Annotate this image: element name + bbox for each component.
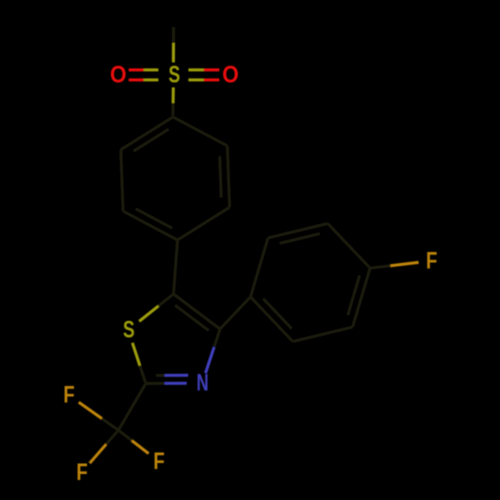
bond C2=N3 main (half b) — [165, 382, 187, 385]
svg-text:S: S — [123, 317, 135, 344]
S=O right line1 a — [188, 78, 204, 81]
C4=C5 inner a — [192, 318, 209, 331]
svg-text:N: N — [197, 370, 209, 397]
ring1 V6=V1 inner b — [151, 129, 169, 140]
bond C4-aryl2 — [220, 297, 251, 329]
bond N3-C4 (half a) — [206, 347, 215, 373]
svg-text:F: F — [153, 448, 164, 475]
ring2 B=C inner a — [280, 239, 300, 244]
C4=C5 inner b — [175, 305, 192, 318]
S=O left line-1 b — [129, 78, 144, 81]
ring2 C-D — [328, 224, 370, 269]
ring2 F=A inner b — [263, 299, 277, 314]
bond C-F4 (half a) — [118, 430, 131, 440]
bond N3-C4 (half b) — [214, 329, 220, 347]
ring1 V2-V3 — [227, 146, 229, 208]
ring2 A-B — [251, 238, 269, 297]
S=O left line1 a — [144, 68, 159, 71]
ring1 V4=V5 inner a — [154, 219, 172, 229]
ring1 V1-V2 — [173, 117, 227, 146]
ring2 B-C — [268, 224, 328, 238]
bond C-F right (half a) — [370, 266, 390, 268]
S=O right line1 b — [204, 78, 219, 81]
ring1 V2=V3 inner a — [218, 156, 222, 177]
ring2 F=A inner a — [278, 314, 292, 329]
svg-text:O: O — [110, 61, 127, 88]
C2=N3 inner a — [156, 374, 165, 377]
S=O right line-1 b — [204, 68, 219, 71]
bond C2-CF3 — [118, 384, 145, 431]
svg-text:O: O — [222, 61, 239, 88]
S=O right line-1 a — [188, 68, 204, 71]
svg-text:S: S — [168, 61, 180, 88]
ring2 D=E inner b — [348, 295, 354, 315]
bond C-F2 (half b) — [79, 402, 102, 418]
ring2 E-F — [293, 327, 353, 341]
bond C-F4 (half b) — [132, 441, 149, 454]
ring2 D-E — [353, 268, 371, 327]
bond CH3-S (half a) — [172, 27, 175, 43]
bond C-F2 (half a) — [102, 419, 119, 431]
svg-text:F: F — [426, 248, 437, 275]
ring1 V6=V1 inner a — [134, 140, 152, 151]
ring2 D=E inner a — [354, 275, 360, 295]
bond C4=C5 main — [174, 294, 221, 329]
ring1 V2=V3 inner b — [219, 177, 223, 198]
bond S1-C2 (half b) — [140, 366, 146, 384]
ring1 V3-V4 — [178, 207, 230, 240]
bond C5-S1 (half b) — [139, 306, 158, 321]
svg-text:F: F — [63, 382, 74, 409]
ring1 V5-V6 — [121, 150, 123, 212]
S=O left line1 b — [129, 68, 144, 71]
bond C5-S1 (half a) — [158, 294, 173, 306]
ring2 B=C inner b — [300, 234, 320, 239]
bond C-F3 (half a) — [106, 430, 118, 444]
bond S-C(aryl) (half a) — [172, 87, 175, 103]
ring1 V4-V5 — [123, 211, 177, 240]
svg-text:F: F — [76, 459, 87, 486]
bond C-F3 (half b) — [90, 444, 106, 463]
ring2 F-A — [251, 297, 293, 342]
bond CH3-S (half b) — [172, 43, 175, 62]
S=O left line-1 a — [144, 78, 159, 81]
bond C2=N3 main (half a) — [146, 382, 165, 385]
bond S1-C2 (half a) — [132, 343, 140, 366]
bond C-F right (half b) — [390, 262, 418, 265]
bond aryl-C5 — [174, 240, 178, 294]
ring1 V4=V5 inner b — [136, 209, 154, 219]
C2=N3 inner b — [165, 374, 189, 377]
bond S-C(aryl) (half b) — [171, 103, 174, 117]
ring1 V6-V1 — [121, 117, 173, 150]
